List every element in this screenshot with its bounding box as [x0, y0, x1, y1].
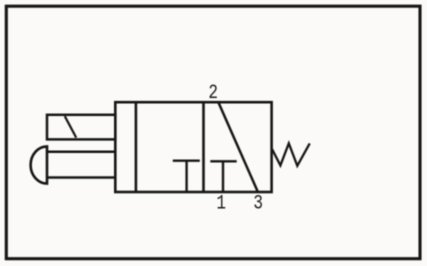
- manual actuator box: [47, 115, 115, 140]
- flow path 2 to 3 diagonal: [219, 103, 258, 192]
- svg-text:2: 2: [208, 83, 218, 105]
- return spring: [272, 143, 310, 165]
- push button cap: [31, 146, 47, 183]
- valve body outline: [115, 102, 271, 192]
- push rod upper line: [47, 150, 115, 153]
- actuator lever mark: [65, 116, 76, 137]
- svg-text:3: 3: [253, 193, 263, 215]
- push rod lower line: [47, 176, 115, 179]
- position divider: [202, 102, 205, 192]
- blocked port T (left box): [173, 161, 200, 192]
- blocked port 1 T (right box): [210, 161, 236, 192]
- actuator interface line: [135, 102, 138, 192]
- svg-text:1: 1: [216, 193, 226, 215]
